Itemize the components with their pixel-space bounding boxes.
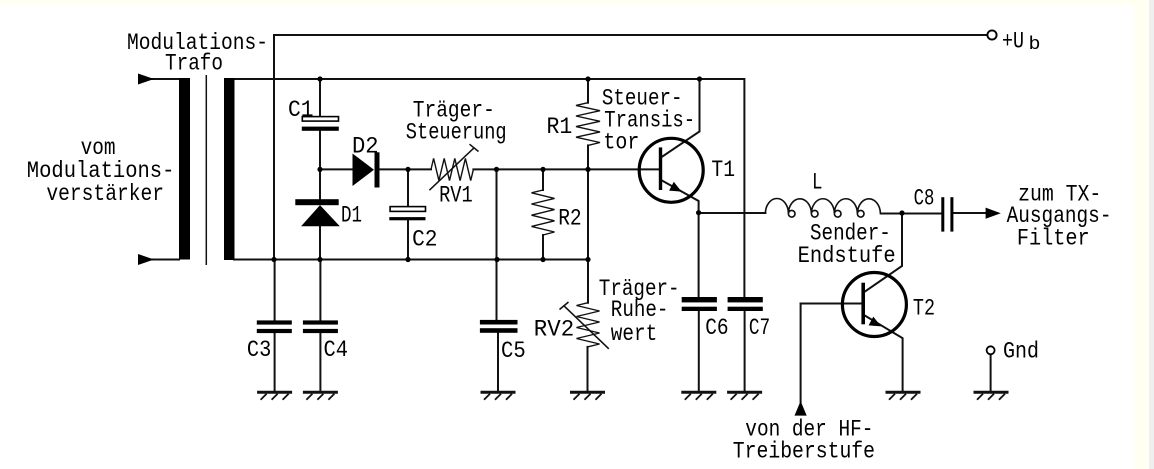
svg-text:D2: D2 (352, 134, 379, 160)
svg-text:C6: C6 (705, 315, 728, 341)
svg-text:R1: R1 (547, 114, 573, 140)
svg-text:RV1: RV1 (439, 182, 473, 208)
svg-text:b: b (1029, 34, 1041, 55)
svg-text:RV2: RV2 (534, 316, 574, 342)
svg-text:T1: T1 (711, 157, 735, 183)
svg-text:Endstufe: Endstufe (798, 243, 896, 269)
svg-text:+U: +U (1002, 29, 1024, 55)
svg-text:L: L (812, 170, 823, 196)
svg-text:C1: C1 (288, 97, 314, 123)
svg-text:Steuerung: Steuerung (406, 120, 507, 146)
svg-text:Treiberstufe: Treiberstufe (733, 439, 875, 465)
svg-text:C3: C3 (247, 337, 271, 363)
svg-text:Trafo: Trafo (165, 51, 223, 77)
svg-text:Ruhe-: Ruhe- (611, 297, 669, 323)
svg-text:C5: C5 (501, 338, 526, 364)
svg-text:C2: C2 (412, 227, 437, 253)
svg-text:wert: wert (611, 321, 657, 347)
svg-text:tor: tor (603, 129, 639, 155)
svg-text:verstärker: verstärker (46, 181, 164, 207)
svg-text:C7: C7 (749, 315, 770, 341)
svg-text:T2: T2 (913, 296, 935, 322)
svg-text:C8: C8 (914, 185, 935, 211)
svg-text:C4: C4 (324, 337, 349, 363)
svg-text:Gnd: Gnd (1003, 339, 1039, 365)
svg-text:D1: D1 (341, 203, 362, 229)
svg-text:Filter: Filter (1017, 226, 1090, 252)
svg-text:R2: R2 (558, 206, 582, 232)
